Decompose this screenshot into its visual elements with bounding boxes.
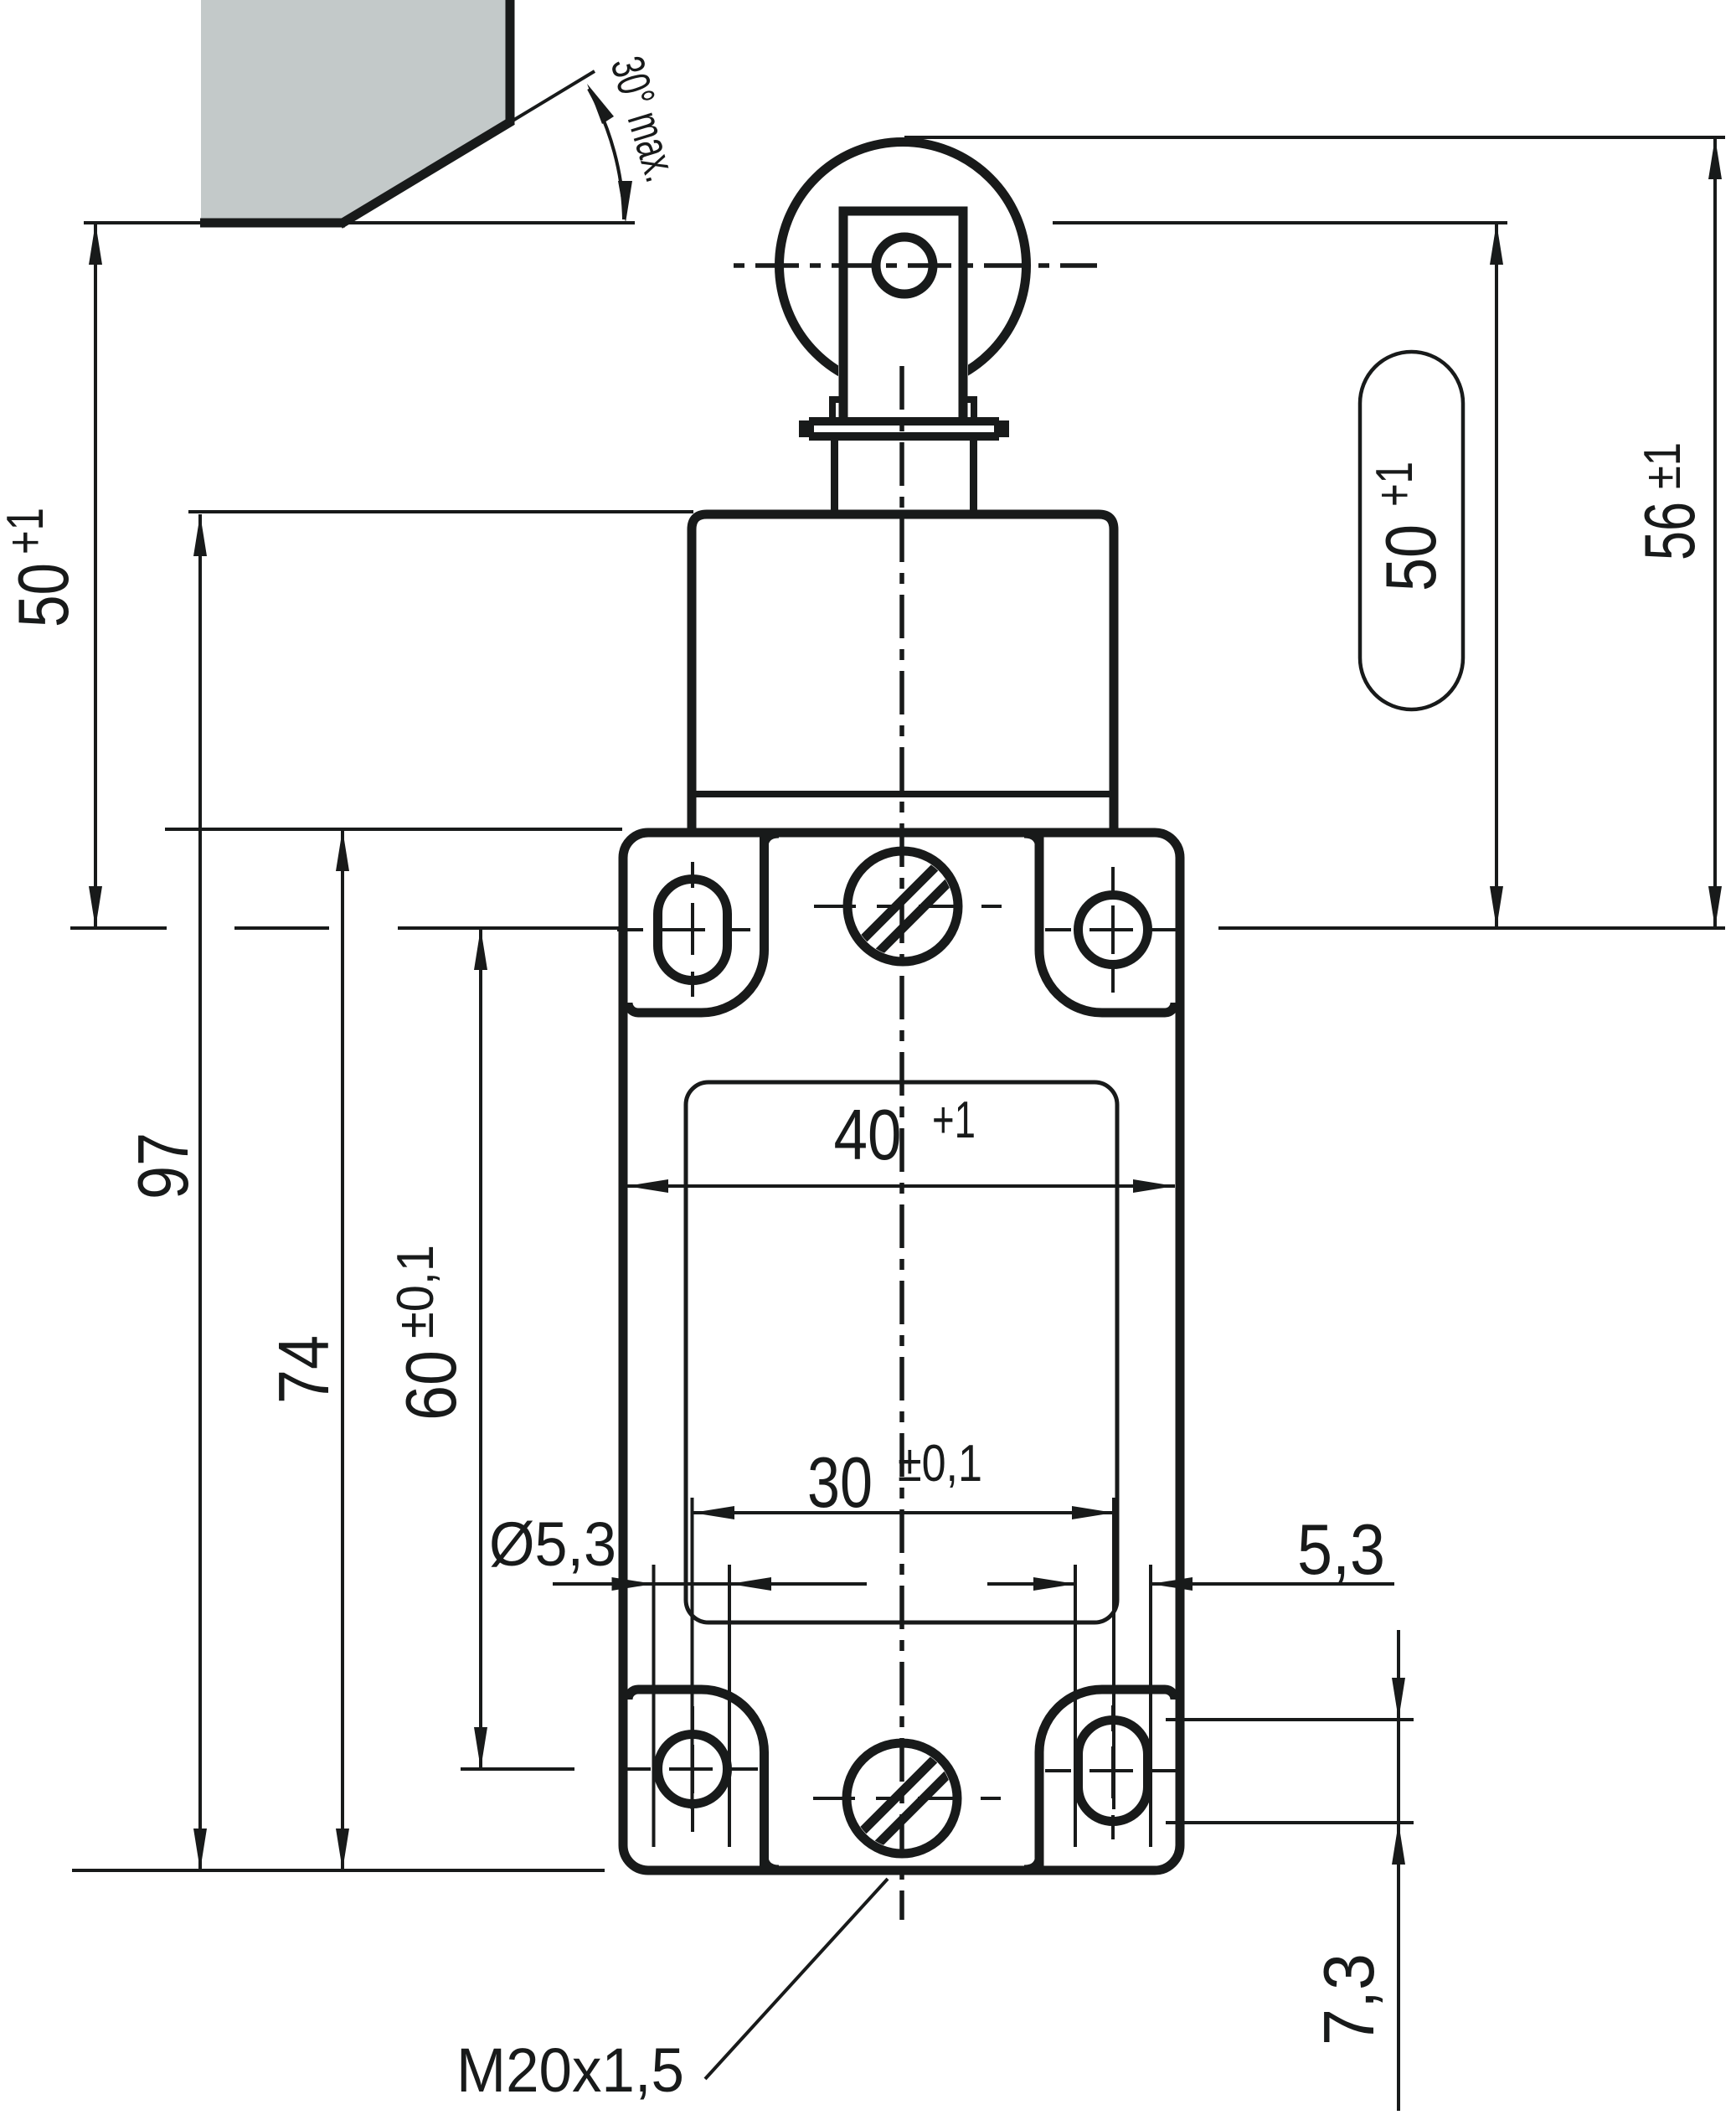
svg-text:+1: +1 (0, 508, 54, 555)
svg-text:+1: +1 (932, 1091, 976, 1149)
svg-text:±0,1: ±0,1 (898, 1435, 982, 1493)
svg-text:7,3: 7,3 (1310, 1953, 1389, 2045)
svg-text:60: 60 (392, 1350, 471, 1421)
svg-text:50: 50 (1372, 524, 1451, 591)
svg-text:Ø5,3: Ø5,3 (489, 1509, 616, 1579)
svg-text:5,3: 5,3 (1297, 1510, 1385, 1590)
svg-text:30: 30 (807, 1443, 873, 1523)
svg-text:M20x1,5: M20x1,5 (456, 2035, 684, 2105)
svg-text:40: 40 (834, 1096, 902, 1175)
svg-text:74: 74 (265, 1335, 344, 1404)
svg-text:50: 50 (4, 563, 84, 627)
svg-text:±0,1: ±0,1 (387, 1245, 445, 1339)
svg-text:97: 97 (124, 1132, 203, 1199)
svg-text:+1: +1 (1366, 462, 1424, 507)
svg-text:56: 56 (1630, 502, 1710, 560)
svg-text:±1: ±1 (1634, 442, 1692, 489)
